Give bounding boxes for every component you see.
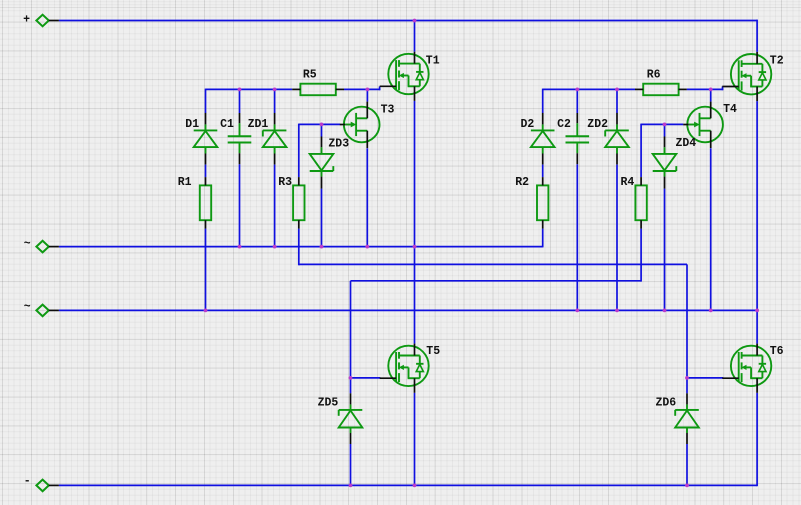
wire R5 right to T1 gate jog [344, 88, 381, 90]
wire T1 drain from + rail [414, 21, 416, 52]
junction T4 gate/ZD4 [663, 123, 667, 127]
wire R3 bottom drop to cross bus [298, 229, 300, 266]
svg-text:R5: R5 [303, 69, 317, 82]
junction AC1 x=414.5 [413, 245, 417, 249]
wire ZD6 top drop [686, 378, 688, 393]
transistor T5 [380, 344, 429, 393]
junction AC2 x=710.7 [709, 309, 713, 313]
wire C1 top [239, 89, 241, 113]
wire T3 gate horizontal [299, 123, 340, 125]
junction +rail/T1 drain [413, 19, 417, 23]
junction gate bus L x=367.4 [366, 88, 370, 92]
wire T5 gate horizontal [351, 377, 381, 379]
svg-text:R4: R4 [621, 176, 635, 189]
svg-text:T3: T3 [381, 104, 395, 117]
wire R3 top drop [298, 124, 300, 178]
capacitor C2 [566, 113, 590, 164]
wire T6 source to - rail [756, 393, 758, 486]
junction -rail x=687 [685, 484, 689, 488]
wire T5 source to - rail [414, 393, 416, 486]
junction AC2 x=617 [615, 309, 619, 313]
resistor R1 [200, 177, 211, 229]
resistor R2 [537, 177, 548, 229]
svg-text:+: + [23, 13, 30, 26]
wire D1-R1 link [205, 165, 207, 178]
junction gate bus R x=577.3 [575, 88, 579, 92]
svg-text:C1: C1 [220, 118, 234, 131]
zener diode ZD1 [263, 113, 287, 165]
wire R1 bottom to AC2 [205, 229, 207, 311]
wire R4 top drop [640, 124, 642, 178]
wire R4 bottom drop to cross bus [640, 229, 642, 282]
wire T6 gate horizontal [687, 377, 723, 379]
transistor T4 [683, 102, 723, 149]
wire ZD4 bottom to AC2 [664, 189, 666, 311]
wire C2 top [576, 89, 578, 113]
svg-text:R1: R1 [178, 176, 192, 189]
wire R2 bottom to AC1 rail end [542, 229, 544, 248]
wire + top rail [59, 20, 757, 22]
svg-text:~: ~ [24, 300, 31, 313]
wire ZD2 bottom to AC2 [616, 165, 618, 311]
svg-text:C2: C2 [557, 118, 571, 131]
wire T3 drain drop [366, 89, 368, 101]
wire ZD3 bottom to AC1 [321, 189, 323, 247]
wire cross bus R4 to T5 gate horizontal [351, 280, 642, 282]
terminal ~ AC2 [36, 305, 59, 317]
wire cross bus drop to T5 gate [350, 281, 352, 378]
wire cross bus R3 to T6 gate horizontal [299, 263, 687, 265]
transistor T3 [340, 102, 380, 149]
wire AC2 rail [59, 309, 757, 311]
terminal - (minus supply) [36, 480, 59, 492]
junction AC1 x=367.3 [365, 245, 369, 249]
junction T5 gate/ZD5 [349, 376, 353, 380]
diode D1 [194, 113, 218, 165]
wire ZD5 bottom to - rail [350, 444, 352, 485]
wire ZD5 top drop [350, 378, 352, 393]
wire R6 right to T2 gate jog [687, 88, 724, 90]
resistor R6 [635, 84, 687, 96]
svg-text:T5: T5 [426, 345, 440, 358]
svg-text:T4: T4 [723, 103, 737, 116]
transistor T6 [722, 344, 771, 393]
zener diode ZD5 [339, 393, 363, 444]
junction -rail x=414.5 [413, 484, 417, 488]
svg-text:T6: T6 [770, 345, 784, 358]
svg-text:ZD1: ZD1 [248, 118, 269, 131]
junction T6 gate/ZD6 [685, 376, 689, 380]
svg-text:-: - [24, 475, 31, 488]
junction gate bus R x=710.7 [709, 88, 713, 92]
wire T1 source to AC1 and T5 drain [414, 101, 416, 344]
wire ZD1 bottom to AC1 [274, 165, 276, 247]
svg-text:R2: R2 [515, 176, 529, 189]
wire ZD2 top [616, 89, 618, 113]
wire ZD1 top [274, 89, 276, 113]
terminal ~ AC1 [36, 241, 59, 253]
terminal + (plus supply) [36, 15, 59, 27]
junction AC1 x=274.6 [273, 245, 277, 249]
wire cross bus drop to T6 gate [686, 264, 688, 378]
wire ZD3 top drop [321, 124, 323, 136]
junction AC1 x=239.5 [238, 245, 242, 249]
wire AC1 rail [59, 246, 543, 248]
wire ZD4 top drop [664, 124, 666, 136]
svg-text:ZD2: ZD2 [587, 118, 608, 131]
wire - bottom rail [59, 484, 757, 486]
wire D2 top corner vertical [542, 89, 544, 113]
junction AC1 x=321.5 [320, 245, 324, 249]
svg-text:R3: R3 [278, 176, 292, 189]
junction -rail x=350.5 [349, 484, 353, 488]
wire D2 bottom to R2 [542, 165, 544, 178]
wire D1 top corner vertical [205, 89, 207, 113]
svg-text:T1: T1 [426, 55, 440, 68]
transistor T1 [380, 52, 429, 101]
wire T2 source to AC2 and T6 drain [756, 101, 758, 344]
junction T3 gate/ZD3 [320, 123, 324, 127]
junction AC2 x=577.3 [575, 309, 579, 313]
zener diode ZD2 [605, 113, 629, 165]
svg-text:ZD5: ZD5 [318, 397, 339, 410]
junction AC2 x=205.5 [204, 309, 208, 313]
wire gate bus left horizontal [206, 88, 293, 90]
junction AC2 x=757.1 [755, 309, 759, 313]
wire T4 gate horizontal [641, 123, 683, 125]
resistor R5 [292, 84, 344, 96]
wire gate bus right horizontal [543, 88, 635, 90]
junction AC2 x=664.5 [663, 309, 667, 313]
diode D2 [531, 113, 555, 165]
svg-text:T2: T2 [770, 54, 784, 67]
wire T4 drain drop [710, 89, 712, 101]
svg-text:~: ~ [24, 237, 31, 250]
resistor R4 [635, 177, 646, 229]
wire + rail drop to T2 drain [756, 20, 758, 52]
svg-text:ZD6: ZD6 [656, 397, 677, 410]
svg-text:ZD3: ZD3 [328, 138, 349, 151]
svg-text:D2: D2 [521, 118, 535, 131]
zener diode ZD3 [310, 137, 334, 189]
resistor R3 [293, 177, 304, 229]
wire T4 source to AC2 [710, 148, 712, 310]
junction gate bus R x=617 [615, 88, 619, 92]
wire ZD6 bottom to - rail [686, 444, 688, 485]
wire C1 bottom to AC1 [239, 164, 241, 246]
wire C2 bottom to AC2 [576, 164, 578, 310]
transistor T2 [722, 52, 771, 101]
svg-text:ZD4: ZD4 [676, 137, 697, 150]
wire T3 source to AC1 [366, 148, 368, 246]
zener diode ZD4 [653, 137, 677, 189]
zener diode ZD6 [675, 393, 699, 444]
capacitor C1 [228, 113, 252, 164]
svg-text:R6: R6 [647, 69, 661, 82]
junction gate bus L x=274.6 [273, 88, 277, 92]
svg-text:D1: D1 [185, 118, 199, 131]
junction gate bus L x=239.5 [238, 88, 242, 92]
